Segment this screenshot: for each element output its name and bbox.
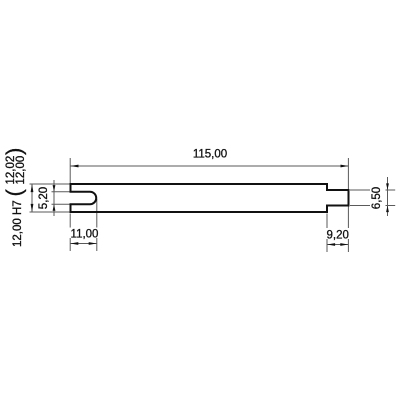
arrowhead 11,00 left xyxy=(70,242,78,245)
svg-text:11,00: 11,00 xyxy=(71,229,99,241)
dimension label 12,00 H7 (12,02/12,00) rotated xyxy=(2,148,28,247)
dimension line 9,20 xyxy=(327,244,348,246)
extension line: 6,50 bottom (step bottom rightward) xyxy=(350,205,395,207)
arrowhead 11,00 right xyxy=(89,242,97,245)
arrowhead 6,50 bottom (pointing up) xyxy=(386,206,389,213)
extension line: 115,00 left (part left face upward) xyxy=(69,158,71,184)
svg-text:(: ( xyxy=(2,189,27,197)
dimension line 5,20 (outside arrows) xyxy=(53,180,55,216)
dimension line 115,00 xyxy=(71,165,349,167)
svg-text:9,20: 9,20 xyxy=(327,230,349,242)
svg-text:12,00 H7: 12,00 H7 xyxy=(12,200,24,247)
arrowhead 115,00 left xyxy=(70,165,78,168)
extension line: 11,00 left (part left face downward) xyxy=(69,214,71,252)
dimension line 11,00 xyxy=(70,243,97,245)
arrowhead 5,20 bottom (pointing up) xyxy=(53,204,56,211)
dimension text 6,50 rotated xyxy=(371,187,383,209)
extension line: 5,20 bottom (slot bottom leftward) xyxy=(52,203,71,205)
arrowhead 6,50 top (pointing down) xyxy=(386,183,389,190)
extension line: right face vertical (115,00 top / 9,20 bottom) xyxy=(347,158,349,252)
dimension line 12,00 xyxy=(31,184,33,212)
arrowhead 115,00 right xyxy=(341,165,349,168)
svg-text:6,50: 6,50 xyxy=(371,187,383,209)
text halo 11,00 xyxy=(69,228,100,239)
extension line: 9,20 left (step corner downward) xyxy=(326,214,328,253)
extension line: 12,00 top (part top edge leftward) xyxy=(30,183,71,185)
arrowhead 9,20 left xyxy=(327,243,335,246)
svg-text:12,00: 12,00 xyxy=(15,156,27,185)
text halo 6,50 xyxy=(370,185,386,211)
arrowhead 5,20 top (pointing down) xyxy=(53,185,56,192)
dimension text 5,20 rotated xyxy=(38,187,50,209)
extension line: 12,00 bottom (part bottom edge leftward) xyxy=(30,211,71,213)
part outline: slotted plate with stepped right end xyxy=(71,184,349,212)
svg-text:115,00: 115,00 xyxy=(193,149,227,161)
text halo 9,20 xyxy=(325,228,351,239)
arrowhead 12,00 top xyxy=(31,184,34,192)
svg-text:5,20: 5,20 xyxy=(38,187,50,209)
svg-text:): ) xyxy=(2,148,27,155)
extension line: 11,00 right (slot end downward) xyxy=(96,199,98,251)
arrowhead 9,20 right xyxy=(340,243,348,246)
extension line: 5,20 top (slot top leftward) xyxy=(52,191,71,193)
extension line: 6,50 top (step top rightward) xyxy=(350,189,395,191)
dimension line 6,50 (outside arrows) xyxy=(387,177,389,216)
arrowhead 12,00 bottom xyxy=(31,204,34,212)
